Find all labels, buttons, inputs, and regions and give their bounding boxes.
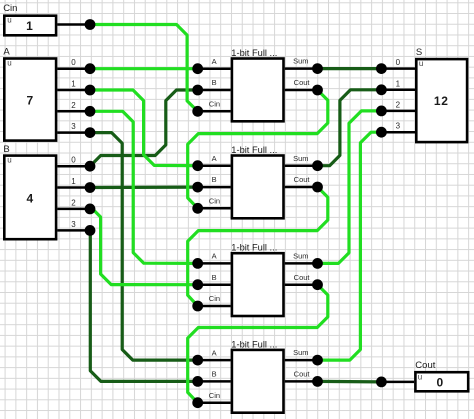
- svg-text:Cin: Cin: [3, 3, 17, 14]
- svg-text:u: u: [7, 16, 11, 25]
- junction dot A[0]: [85, 63, 96, 74]
- svg-text:u: u: [7, 155, 11, 164]
- svg-text:12: 12: [434, 94, 449, 108]
- wire net A1 from input A pin 1 to U2.A (high, bright green): [90, 90, 198, 166]
- svg-text:3: 3: [396, 122, 401, 131]
- svg-text:Sum: Sum: [293, 57, 308, 66]
- junction dot S[0]: [376, 63, 387, 74]
- full adder U1 body: [232, 59, 284, 122]
- pin stub Cout.in: [381, 381, 414, 384]
- svg-text:1: 1: [71, 177, 76, 186]
- pin stubs U4.A .B .Cin .Sum .Cout: [198, 360, 318, 403]
- pin stubs A[0..3]: [57, 69, 90, 133]
- full adder U2 "1-bit Full ..." (bit 1): [192, 145, 323, 218]
- svg-text:Sum: Sum: [293, 348, 308, 357]
- svg-text:0: 0: [71, 156, 76, 165]
- wire net B2 from input B pin 2 to U3.B (high, bright green): [90, 209, 198, 285]
- svg-text:7: 7: [26, 93, 33, 107]
- svg-text:1: 1: [71, 80, 76, 89]
- pin stub Cin.out: [57, 23, 90, 26]
- output S (4-bit display, value 12): [376, 47, 467, 142]
- svg-text:Cout: Cout: [415, 360, 435, 371]
- svg-text:3: 3: [71, 220, 76, 229]
- svg-text:S: S: [416, 47, 422, 58]
- full adder U4 "1-bit Full ..." (bit 3): [192, 339, 323, 412]
- junction dot U1.B: [192, 85, 203, 96]
- svg-text:Cin: Cin: [209, 294, 220, 303]
- full adder U1 "1-bit Full ..." (bit 0): [192, 48, 323, 121]
- junction dot U2.Sum: [312, 160, 323, 171]
- junction dot B[3]: [85, 225, 96, 236]
- junction dot U4.Sum: [312, 355, 323, 366]
- junction dot U4.B: [192, 376, 203, 387]
- wire net SUM2 from U3.Sum to output S pin 2 (high, bright green): [318, 111, 382, 264]
- junction dot U1.Sum: [312, 63, 323, 74]
- junction dot U3.Cout: [312, 279, 323, 290]
- wire net COUT from U4.Cout to output Cout pin (low, dark green): [318, 380, 382, 384]
- wire net SUM1 from U2.Sum to output S pin 1 (low, dark green): [318, 90, 382, 166]
- junction dot S[2]: [376, 106, 387, 117]
- wire net C3 carry from U3.Cout to U4.Cin (high, bright green): [188, 285, 328, 403]
- svg-text:A: A: [212, 57, 217, 66]
- full adder U4 body: [232, 350, 284, 413]
- svg-text:u: u: [418, 373, 422, 382]
- wire net A0 from input A pin 0 to U1.A (high, bright green): [90, 67, 198, 70]
- svg-text:1-bit Full ...: 1-bit Full ...: [231, 339, 277, 349]
- pin stubs S[0..3]: [381, 69, 415, 133]
- junction dot U2.Cin: [192, 203, 203, 214]
- svg-text:0: 0: [436, 375, 443, 389]
- svg-text:B: B: [3, 144, 9, 155]
- pin stubs U1.A .B .Cin .Sum .Cout: [198, 69, 318, 112]
- svg-text:B: B: [212, 370, 217, 379]
- full adder U2 body: [232, 156, 284, 219]
- wire net B1 from input B pin 1 to U2.B (low, dark green): [90, 186, 198, 190]
- pin stubs U3.A .B .Cin .Sum .Cout: [198, 263, 318, 306]
- junction dot A[3]: [85, 127, 96, 138]
- junction dot U4.Cout: [312, 376, 323, 387]
- wire net C2 carry from U2.Cout to U3.Cin (high, bright green): [188, 187, 328, 306]
- junction dot U1.A: [192, 63, 203, 74]
- svg-text:0: 0: [396, 58, 401, 67]
- svg-text:Cin: Cin: [209, 197, 220, 206]
- junction dot U4.Cin: [192, 397, 203, 408]
- svg-text:4: 4: [26, 191, 33, 205]
- full adder U3 "1-bit Full ..." (bit 2): [192, 243, 323, 316]
- junction dot S[1]: [376, 84, 387, 95]
- junction dot A[1]: [85, 85, 96, 96]
- svg-text:A: A: [212, 252, 217, 261]
- svg-text:2: 2: [396, 100, 401, 109]
- input A body: [4, 59, 56, 141]
- svg-text:Cout: Cout: [294, 273, 311, 282]
- svg-text:u: u: [7, 58, 11, 67]
- wire net A3 from input A pin 3 to U4.A (low, dark green): [90, 133, 198, 361]
- wire net SUM0 from U1.Sum to output S pin 0 (low, dark green): [318, 67, 382, 70]
- full adder U3 body: [232, 253, 284, 316]
- input B body: [4, 156, 56, 240]
- junction dot U3.B: [192, 279, 203, 290]
- svg-text:Sum: Sum: [293, 252, 308, 261]
- wire net SUM3 from U4.Sum to output S pin 3 (high, bright green): [318, 132, 382, 360]
- junction dot A[2]: [85, 106, 96, 117]
- svg-text:Sum: Sum: [293, 154, 308, 163]
- svg-text:0: 0: [71, 58, 76, 67]
- svg-text:1-bit Full ...: 1-bit Full ...: [231, 243, 277, 253]
- svg-text:3: 3: [71, 122, 76, 131]
- junction dot Cin.out: [85, 19, 96, 30]
- input Cin (1-bit switch, value 1): [3, 3, 95, 35]
- svg-text:2: 2: [71, 101, 76, 110]
- svg-text:Cout: Cout: [294, 175, 311, 184]
- svg-text:A: A: [3, 47, 10, 58]
- pin stubs B[0..3]: [57, 166, 90, 230]
- svg-text:u: u: [419, 59, 423, 68]
- wire net B0 from input B pin 0 to U1.B (low, dark green): [90, 90, 198, 166]
- svg-text:Cin: Cin: [209, 100, 220, 109]
- junction dot U2.Cout: [312, 182, 323, 193]
- output S body: [416, 59, 467, 142]
- svg-text:2: 2: [71, 198, 76, 207]
- input A (4-bit, value 7): [3, 47, 95, 141]
- svg-text:1-bit Full ...: 1-bit Full ...: [231, 48, 277, 58]
- wire net A2 from input A pin 2 to U3.A (high, bright green): [90, 111, 198, 263]
- svg-text:B: B: [212, 78, 217, 87]
- junction dot S[3]: [376, 127, 387, 138]
- svg-text:1: 1: [396, 79, 401, 88]
- svg-text:B: B: [212, 273, 217, 282]
- svg-text:B: B: [212, 175, 217, 184]
- svg-text:A: A: [212, 154, 217, 163]
- wire net CIN from input Cin to U1.Cin (high, bright green): [90, 25, 198, 112]
- input B (4-bit, value 4): [3, 144, 95, 239]
- junction dot U4.A: [192, 355, 203, 366]
- svg-text:1: 1: [26, 19, 33, 33]
- svg-text:Cout: Cout: [294, 370, 311, 379]
- svg-text:Cin: Cin: [209, 391, 220, 400]
- svg-text:1-bit Full ...: 1-bit Full ...: [231, 145, 277, 155]
- junction dot U3.Sum: [312, 258, 323, 269]
- junction dot U2.A: [192, 160, 203, 171]
- junction dot U2.B: [192, 182, 203, 193]
- output Cout (1-bit display, value 0): [376, 360, 468, 391]
- junction dot B[0]: [85, 161, 96, 172]
- wire net C1 carry from U1.Cout to U2.Cin (high, bright green): [188, 90, 328, 208]
- pin stubs U2.A .B .Cin .Sum .Cout: [198, 166, 318, 209]
- input Cin body: [4, 16, 56, 36]
- svg-text:A: A: [212, 348, 217, 357]
- junction dot B[2]: [85, 204, 96, 215]
- junction dot U3.Cin: [192, 301, 203, 312]
- output Cout body: [415, 372, 468, 391]
- junction dot U1.Cout: [312, 85, 323, 96]
- svg-text:Cout: Cout: [294, 78, 311, 87]
- junction dot Cout.in: [376, 377, 387, 388]
- junction dot U1.Cin: [192, 106, 203, 117]
- junction dot B[1]: [85, 182, 96, 193]
- wire net B3 from input B pin 3 to U4.B (low, dark green): [90, 230, 198, 381]
- junction dot U3.A: [192, 258, 203, 269]
